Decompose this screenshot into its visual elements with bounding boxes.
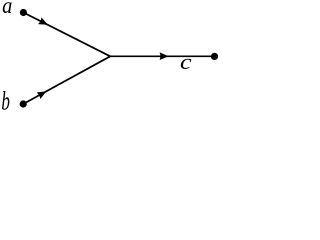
label c: [180, 51, 192, 75]
arrowhead on wire a: [38, 17, 49, 28]
wire a-junction: [23, 13, 110, 57]
svg-text:b: b: [1, 86, 10, 116]
wire b-junction: [23, 56, 110, 104]
label b: [1, 86, 10, 116]
node c terminal dot: [211, 53, 218, 60]
svg-text:a: a: [2, 0, 12, 18]
arrowhead on wire c: [160, 52, 169, 60]
node a terminal dot: [20, 9, 27, 16]
wire junction-c: [110, 55, 214, 57]
label a: [2, 0, 12, 18]
node b terminal dot: [20, 100, 27, 107]
svg-text:c: c: [180, 51, 192, 75]
arrowhead on wire b: [37, 88, 49, 99]
